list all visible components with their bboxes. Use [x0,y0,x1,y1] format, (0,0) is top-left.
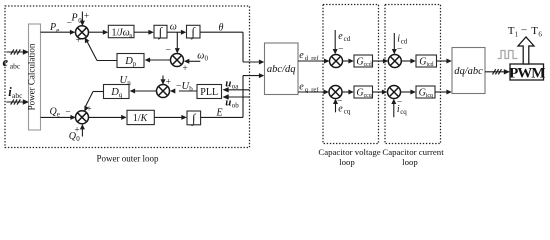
svg-text:−: − [338,44,343,54]
svg-text:dq/abc: dq/abc [454,66,483,77]
wire i_cq up into junction Cq [393,104,395,117]
svg-text:PWM: PWM [509,65,545,81]
wire U_n down into junction U [162,76,164,81]
svg-text:T: T [508,25,515,37]
svg-text:P: P [71,13,78,24]
dashed box: Capacitor voltage loop [323,5,379,144]
svg-text:cq: cq [344,107,351,115]
block D_p [117,54,144,68]
open block arrow from PWM up to gate signals [518,37,534,64]
summing junction Cd [388,55,401,68]
svg-text:Capacitor current: Capacitor current [382,147,444,157]
block 1/Jw_n [108,25,134,37]
svg-text:e: e [56,26,59,34]
wire u_oa into PLL [229,89,250,91]
integrator block 4 [187,111,201,125]
svg-text:G: G [356,87,363,98]
summing junction Vq [329,86,342,99]
svg-text:6: 6 [538,30,542,38]
wire e_cd down into junction Vd [334,30,336,50]
svg-text:e: e [299,81,304,92]
summing junction Vd [330,55,343,68]
block PWM [510,64,544,80]
wire PLL to junction U [179,90,197,92]
svg-text:Capacitor voltage: Capacitor voltage [318,147,380,157]
svg-text:0: 0 [76,135,80,143]
three-phase hatch on e_abc wire [11,49,14,54]
block D_q [104,85,130,99]
wire Qe from Power Calculation to junction Q [41,116,72,118]
svg-text:ob: ob [232,101,240,109]
wire 1/K to integrator 4 [154,116,182,118]
svg-text:−: − [65,108,70,118]
svg-text:q: q [119,91,123,99]
wire G_icd to dq/abc block [437,60,448,62]
summing junction U [157,85,170,98]
wire omega tap down to junction w [176,32,178,49]
svg-text:+: + [84,12,89,22]
svg-text:e: e [3,55,9,69]
integrator block 2 [187,25,201,38]
dashed box: Power outer loop [5,6,250,148]
svg-text:e: e [338,103,343,114]
wire G_ccd to junction Cd [373,60,385,62]
svg-text:icq: icq [426,93,433,99]
summing junction P [76,26,89,39]
svg-text:−: − [166,46,171,56]
svg-text:E: E [216,107,223,118]
wire E from integrator4 to abc/dq block [201,116,243,118]
block abc/dq [265,43,299,95]
svg-text:Power Calculation: Power Calculation [27,43,37,110]
svg-text:+: + [182,64,187,74]
wire junction w to block Dp [150,59,171,61]
svg-text:K: K [140,113,149,124]
wire Dq feedback to junction Q [93,91,104,93]
wire i_cd down into junction Cd [393,33,395,50]
svg-text:G: G [356,56,363,67]
wire 1/Jw to integrator 1 [134,31,149,33]
block G_ccd [354,55,373,67]
block Power Calculation [29,24,41,130]
svg-text:∫: ∫ [191,111,196,126]
svg-text:1: 1 [515,30,519,38]
wire Q_0 up into junction Q [81,129,83,137]
svg-text:T: T [531,25,538,37]
svg-text:Power outer loop: Power outer loop [97,154,159,164]
svg-text:P: P [49,22,56,33]
svg-text:b: b [189,85,193,93]
wire e_d_ref to junction Vd [298,60,325,62]
svg-text:–: – [521,25,528,36]
wire G_icq to dq/abc block [435,91,447,93]
wire dq/abc to PWM [485,71,505,73]
block dq/abc [452,48,485,94]
block G_icq [416,86,435,98]
svg-text:icd: icd [426,62,433,68]
svg-text:e: e [338,31,343,42]
svg-text:p: p [133,60,137,68]
svg-text:loop: loop [402,157,418,167]
wire i_abc into Power Calculation [6,101,24,103]
gray PWM carrier square wave symbol [498,51,518,59]
three-phase hatch on PWM wire [493,69,496,74]
wire junction U to block Dq [134,90,156,92]
svg-text:−: − [397,45,402,55]
svg-text:ccd: ccd [364,62,372,68]
wire Pe from Power Calculation to summing junction P [41,31,71,33]
wire junction Vq to G_ccq [342,91,349,93]
wire integrator1 to integrator2 [167,31,182,33]
svg-text:abc/dq: abc/dq [267,64,296,75]
svg-text:PLL: PLL [200,87,218,98]
wire e_cq up into junction Vq [335,103,337,112]
svg-text:G: G [419,87,426,98]
wire junction Cd to G_icd [401,60,411,62]
integrator block 1 [154,25,167,38]
wire theta from integrator2 to abc/dq block [200,31,243,33]
wire junction P to block 1/Jw [89,31,104,33]
svg-text:e: e [299,50,304,61]
wire junction Q to block 1/K [89,116,123,118]
wire Dp feedback to junction P [97,60,117,62]
svg-text:abc: abc [12,91,23,100]
svg-text:∫: ∫ [190,25,195,40]
svg-text:abc: abc [10,62,21,71]
svg-text:cq: cq [400,108,407,116]
block PLL [197,85,222,99]
block G_ccq [354,86,373,98]
wire junction Vd to G_ccd [343,60,350,62]
svg-text:∫: ∫ [158,25,163,40]
svg-text:G: G [419,56,426,67]
svg-text:cd: cd [344,35,351,43]
svg-text:ccq: ccq [364,93,372,99]
wire omega_0 into junction w [189,60,200,62]
wire G_ccq to junction Cq [373,91,384,93]
svg-text:ω: ω [197,50,204,61]
svg-text:0: 0 [205,54,209,62]
svg-text:ω: ω [170,21,177,32]
dashed box: Capacitor current loop [385,5,441,144]
summing junction Cq [388,86,401,99]
block G_icd [416,55,437,67]
svg-text:+: + [76,36,81,46]
svg-text:loop: loop [339,157,355,167]
svg-text:Jω: Jω [118,27,130,38]
summing junction Q [76,111,89,124]
wire u_ob into PLL [229,96,250,98]
wire P_0 down into summing junction P [81,12,83,22]
wire e_abc into Power Calculation [6,51,24,53]
wire junction Cq to G_icq [401,91,412,93]
wire e_q_ref to junction Vq [298,91,325,93]
summing junction w [171,54,184,67]
block 1/K [127,110,154,124]
three-phase hatch on i_abc wire [11,99,14,104]
